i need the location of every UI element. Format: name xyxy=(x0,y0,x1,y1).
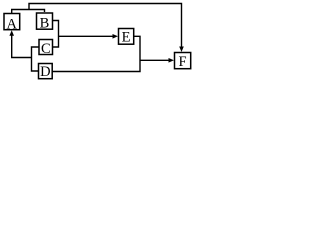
svg-text:A: A xyxy=(7,16,18,32)
svg-text:F: F xyxy=(179,54,187,70)
svg-text:D: D xyxy=(40,64,50,80)
svg-text:C: C xyxy=(41,41,51,57)
svg-text:E: E xyxy=(122,30,131,46)
svg-text:B: B xyxy=(40,16,50,32)
